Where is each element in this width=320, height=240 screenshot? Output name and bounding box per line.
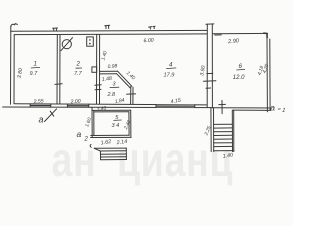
room 3 top wall <box>100 71 118 74</box>
room 5 left wall <box>92 107 94 137</box>
dots of sink symbol <box>89 39 91 44</box>
svg-text:2.55: 2.55 <box>32 98 44 105</box>
room 1 underline <box>31 66 40 69</box>
vent mark 3 above top wall <box>149 26 155 29</box>
svg-text:2.00: 2.00 <box>69 99 81 106</box>
room 4 underline <box>166 67 176 70</box>
cap on top of shared wall <box>206 23 214 25</box>
vent mark 1 above top wall <box>53 28 58 31</box>
svg-text:7.7: 7.7 <box>74 71 83 77</box>
shared double wall between room 4 and room 6 <box>207 24 212 107</box>
room 5 top wall <box>92 110 131 112</box>
svg-text:6: 6 <box>239 63 243 70</box>
right block top wall inner segment <box>215 34 222 36</box>
svg-text:12.0: 12.0 <box>233 75 245 81</box>
right block top wall <box>212 32 267 34</box>
svg-text:1: 1 <box>34 60 37 67</box>
stair treads <box>214 123 233 125</box>
room 5 underline <box>113 119 121 121</box>
svg-text:0.98: 0.98 <box>107 63 117 70</box>
window W1 in bottom wall (below room 1) <box>30 104 51 107</box>
door ticks in shared wall <box>203 73 216 88</box>
svg-text:ан: ан <box>51 134 96 188</box>
vent mark 2 above top wall <box>105 25 110 28</box>
svg-text:2: 2 <box>76 61 81 68</box>
door ticks on wall 2|4 <box>95 85 101 90</box>
svg-text:17.9: 17.9 <box>164 72 175 78</box>
top-left corner hook <box>11 24 18 27</box>
main block bottom wall (outer line) <box>3 106 213 109</box>
door tick to stairs in right block bottom wall <box>219 100 226 113</box>
window W3 in bottom wall (below room 4) <box>156 105 195 108</box>
room 3 right wall <box>131 86 133 104</box>
svg-text:2.8: 2.8 <box>107 92 116 98</box>
room 6 underline <box>236 68 245 71</box>
porch steps below room 5 <box>94 147 126 149</box>
small tick left of porch <box>90 144 91 147</box>
watermark (faint site watermark letters) <box>51 134 233 188</box>
svg-text:9.7: 9.7 <box>30 71 39 77</box>
right block top-right corner <box>264 33 268 37</box>
main block left wall (outer line) <box>10 26 12 104</box>
svg-text:3 4: 3 4 <box>112 123 120 129</box>
svg-text:6.00: 6.00 <box>143 38 154 45</box>
room 5 right wall <box>129 110 131 137</box>
svg-text:а: а <box>77 129 82 139</box>
right block bottom wall <box>213 108 272 111</box>
svg-text:а: а <box>39 115 44 125</box>
main block top wall (inner line) <box>14 33 207 36</box>
interior wall between room 2 and room 4 <box>97 34 100 103</box>
room 3 chamfer wall <box>117 71 132 88</box>
svg-text:цианц: цианц <box>117 134 233 188</box>
main block bottom wall (inner line) <box>14 104 207 105</box>
tick on wall 1|2 <box>55 83 62 86</box>
room 2 underline <box>76 67 82 69</box>
svg-text:4: 4 <box>169 61 173 68</box>
flourish of letter a (section mark) <box>45 109 57 122</box>
stairs left wall <box>211 108 214 152</box>
gas stove symbol (circle with slash) in room 2 <box>62 40 71 49</box>
window W2 in bottom wall (below room 2) <box>67 104 88 107</box>
main block top wall (outer line) <box>11 29 208 32</box>
tick on room 3 right wall <box>127 93 136 95</box>
svg-text:а: а <box>270 102 275 112</box>
door leaf box on wall 2|4 <box>92 67 97 72</box>
interior wall between rooms 1 and 2 <box>57 35 60 104</box>
stairs right wall <box>232 110 234 151</box>
svg-text:3: 3 <box>113 82 116 88</box>
room 3 underline <box>110 86 120 88</box>
sink symbol (square with two dots) in room 2 <box>87 37 94 46</box>
room 5 bottom wall <box>91 135 131 137</box>
main block left wall (inner line) <box>13 35 15 104</box>
right block right wall <box>267 37 270 112</box>
svg-text:2: 2 <box>84 137 89 143</box>
